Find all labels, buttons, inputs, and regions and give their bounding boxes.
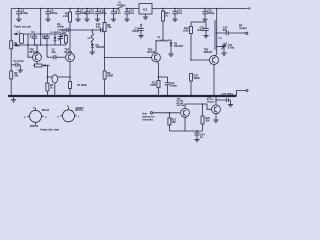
svg-text:1000p: 1000p bbox=[21, 12, 29, 15]
svg-text:2N3053: 2N3053 bbox=[207, 101, 215, 103]
resistor R21 bbox=[168, 112, 177, 131]
ground symbol bbox=[11, 97, 16, 102]
transistor TR5 bbox=[177, 98, 190, 117]
pinout circle BF194 bbox=[24, 106, 50, 128]
switch S1 bbox=[117, 2, 127, 9]
diode D3 bbox=[168, 40, 183, 56]
svg-text:39k: 39k bbox=[14, 75, 19, 78]
capacitor C1 bbox=[11, 60, 24, 72]
capacitor C3 bbox=[31, 31, 37, 46]
svg-text:0.1u: 0.1u bbox=[177, 12, 182, 15]
svg-text:output: output bbox=[239, 27, 247, 30]
resistor R6 bbox=[63, 8, 71, 53]
svg-text:Tank circuit: Tank circuit bbox=[14, 25, 31, 29]
transistor TR3 bbox=[148, 49, 161, 62]
svg-text:1N4148: 1N4148 bbox=[174, 45, 183, 48]
svg-text:10k: 10k bbox=[107, 26, 112, 29]
capacitor C16 bbox=[172, 8, 182, 22]
underside view label bbox=[40, 128, 60, 132]
svg-text:10k: 10k bbox=[205, 119, 210, 122]
svg-text:3-30p: 3-30p bbox=[228, 47, 235, 50]
capacitor C8 bbox=[46, 44, 66, 59]
svg-text:680R: 680R bbox=[194, 77, 200, 80]
resistor R3 bbox=[46, 66, 54, 97]
IC regulator IC1 bbox=[139, 4, 152, 20]
wire TR1 base bbox=[27, 44, 33, 57]
wire TR5 collector bbox=[185, 104, 212, 109]
transistor TR6 bbox=[207, 97, 221, 114]
svg-text:100R: 100R bbox=[150, 84, 156, 87]
svg-text:1000p: 1000p bbox=[132, 30, 140, 33]
svg-text:BF194: BF194 bbox=[42, 109, 50, 112]
svg-text:BF199: BF199 bbox=[65, 51, 73, 54]
svg-text:0.1u: 0.1u bbox=[89, 12, 94, 15]
svg-text:9V: 9V bbox=[248, 7, 251, 10]
aerial arrow top bbox=[13, 33, 17, 36]
capacitor C7 bbox=[75, 8, 87, 22]
wire TR1 emitter bbox=[36, 61, 38, 65]
capacitor C2 bbox=[16, 8, 28, 22]
resistor R14 bbox=[162, 8, 171, 40]
capacitor C23 bbox=[215, 93, 234, 107]
resistor R5 bbox=[33, 64, 50, 68]
capacitor C19 bbox=[191, 22, 209, 38]
svg-text:D1 BB105: D1 BB105 bbox=[51, 32, 62, 34]
capacitor C20 bbox=[216, 27, 246, 36]
wire TR1 collector bbox=[36, 44, 38, 53]
wire keying common bbox=[169, 130, 202, 132]
inductor L3 bbox=[156, 36, 171, 54]
wire osc coupling bbox=[58, 29, 105, 31]
varactor D1 bbox=[51, 32, 62, 45]
diode D2 bbox=[90, 44, 105, 55]
tank circuit label bbox=[14, 25, 31, 29]
svg-text:680R: 680R bbox=[107, 75, 113, 78]
aerial arrow bottom bbox=[13, 44, 17, 47]
choke L5 bbox=[47, 75, 70, 96]
svg-text:1000p: 1000p bbox=[197, 29, 204, 32]
svg-text:BF194B: BF194B bbox=[30, 51, 40, 54]
capacitor C18 bbox=[202, 8, 214, 22]
transistor TR1 bbox=[30, 49, 42, 62]
svg-text:47p: 47p bbox=[52, 51, 57, 54]
resistor R2 bbox=[10, 71, 19, 79]
wire TR5 emitter bbox=[184, 117, 186, 131]
svg-text:1000p: 1000p bbox=[170, 85, 177, 88]
resistor R22 bbox=[201, 103, 210, 131]
pinout circle BFY51 bbox=[57, 105, 84, 122]
svg-text:on/off: on/off bbox=[117, 5, 124, 7]
svg-text:10k: 10k bbox=[172, 121, 177, 124]
resistor R16 bbox=[183, 22, 192, 60]
transistor TR4 bbox=[204, 49, 219, 65]
capacitor C11 bbox=[95, 8, 107, 22]
resistor R1 bbox=[10, 41, 21, 49]
svg-text:33p: 33p bbox=[96, 26, 101, 29]
ground bus 0V rail bbox=[8, 90, 248, 97]
wire TR6 collector bbox=[215, 96, 217, 105]
wire top supply rail bbox=[11, 7, 251, 10]
wire TR4 emitter bbox=[213, 65, 215, 97]
svg-text:C1 0.01u: C1 0.01u bbox=[14, 60, 25, 63]
trimmer CV1 bbox=[58, 34, 63, 45]
capacitor C14 bbox=[124, 8, 134, 22]
capacitor C10 bbox=[84, 8, 94, 22]
svg-text:2.2k: 2.2k bbox=[63, 15, 68, 18]
capacitor C24 bbox=[194, 130, 205, 142]
svg-text:2N3704: 2N3704 bbox=[177, 104, 185, 107]
svg-text:1000p: 1000p bbox=[207, 12, 215, 15]
wire TR2 emitter bbox=[69, 61, 71, 81]
svg-text:transmit): transmit) bbox=[143, 119, 153, 122]
inductor L1 bbox=[18, 31, 34, 44]
wire tank feed bbox=[40, 8, 42, 46]
svg-text:C23 1000p: C23 1000p bbox=[222, 93, 234, 96]
svg-text:33p: 33p bbox=[42, 37, 47, 40]
svg-text:1000p: 1000p bbox=[57, 26, 65, 29]
svg-text:1N4148: 1N4148 bbox=[96, 46, 105, 49]
transistor TR2 bbox=[65, 49, 75, 62]
svg-text:1000p: 1000p bbox=[50, 12, 58, 15]
svg-text:33p: 33p bbox=[223, 29, 228, 32]
resistor R7 bbox=[69, 82, 87, 97]
svg-text:BF199: BF199 bbox=[148, 51, 156, 54]
inductor L2 bbox=[88, 29, 94, 44]
svg-text:0.1u: 0.1u bbox=[116, 12, 121, 15]
capacitor C6 bbox=[45, 8, 57, 22]
svg-text:1u: 1u bbox=[200, 136, 203, 139]
capacitor C15 bbox=[132, 24, 144, 38]
wire tank top bbox=[16, 33, 66, 35]
wire TR4 base bbox=[191, 59, 210, 61]
svg-text:BFY51: BFY51 bbox=[75, 109, 83, 112]
resistor R4 bbox=[62, 29, 68, 45]
resistor R9 bbox=[103, 71, 113, 96]
svg-text:1000p: 1000p bbox=[100, 12, 108, 15]
capacitor C9 bbox=[57, 23, 68, 32]
wire TR3 base bbox=[104, 57, 152, 59]
svg-text:47k: 47k bbox=[62, 31, 67, 34]
svg-text:2N3704: 2N3704 bbox=[30, 125, 39, 128]
svg-text:100k: 100k bbox=[14, 44, 20, 47]
svg-text:R5 1k: R5 1k bbox=[43, 65, 50, 68]
trimmer C21 bbox=[216, 43, 235, 56]
svg-text:0.1u: 0.1u bbox=[129, 12, 134, 15]
capacitor C12 bbox=[111, 8, 121, 22]
resistor R11 bbox=[150, 61, 160, 96]
ground TR6 emitter bbox=[213, 114, 218, 123]
svg-text:2N4427: 2N4427 bbox=[204, 51, 213, 54]
terminal RF output bbox=[239, 25, 248, 35]
key terminal bbox=[143, 112, 180, 122]
svg-text:R7 100R: R7 100R bbox=[77, 84, 87, 87]
svg-text:IC1: IC1 bbox=[143, 8, 148, 12]
resistor R8 bbox=[103, 8, 112, 71]
wire tank bottom bbox=[16, 44, 66, 46]
svg-text:Underside view: Underside view bbox=[40, 128, 60, 132]
capacitor C13 bbox=[96, 23, 103, 32]
wire tank node bbox=[27, 34, 29, 45]
capacitor C4 bbox=[42, 34, 50, 45]
wire left border bbox=[10, 9, 12, 97]
inductor L4 bbox=[215, 8, 222, 57]
resistor R17 bbox=[190, 59, 200, 96]
capacitor C17 bbox=[158, 76, 178, 96]
svg-text:100k: 100k bbox=[183, 30, 189, 33]
